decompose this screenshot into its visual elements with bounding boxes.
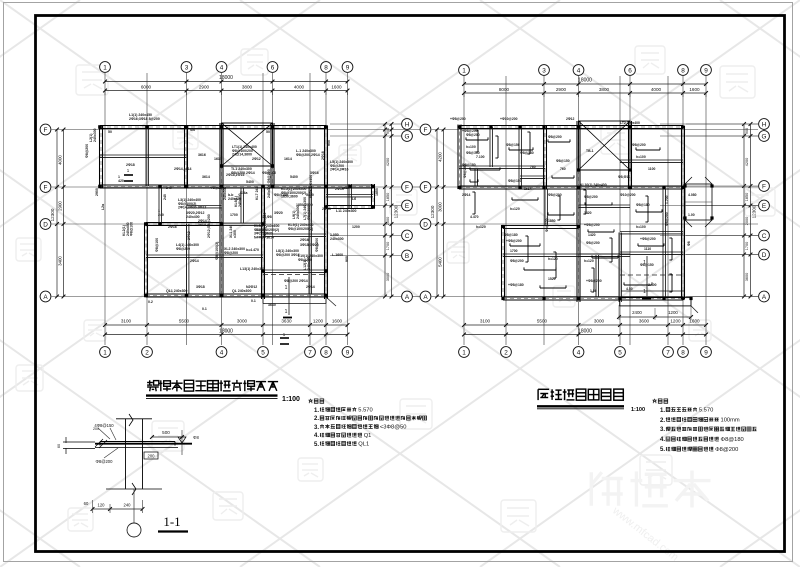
svg-text:1700: 1700 (386, 242, 390, 250)
svg-text:2.: 2. (314, 416, 319, 422)
wall (576, 121, 578, 302)
svg-text:2900: 2900 (199, 85, 210, 90)
slab rebar (638, 245, 664, 247)
svg-text:1: 1 (462, 349, 466, 356)
svg-text:1420: 1420 (588, 233, 596, 237)
right title 三层楼板配筋图 (538, 389, 549, 400)
beam (240, 188, 242, 223)
svg-text:3400: 3400 (58, 256, 63, 266)
svg-text:Φ8@200: Φ8@200 (584, 195, 598, 199)
beam (618, 233, 620, 303)
svg-text:D: D (762, 252, 767, 259)
svg-text:h=100: h=100 (466, 145, 476, 149)
svg-text:240x300 Φ8@200: 240x300 Φ8@200 (267, 169, 271, 198)
axis bubble 7 (305, 347, 316, 358)
column (618, 297, 621, 300)
svg-text:2Φ14: 2Φ14 (322, 207, 331, 211)
slab rebar (512, 199, 538, 201)
column (220, 125, 224, 129)
svg-text:0.1: 0.1 (251, 299, 256, 303)
axis bubble F (420, 124, 431, 135)
right plan stair box (579, 121, 631, 170)
svg-text:G: G (405, 133, 410, 140)
svg-text:240: 240 (124, 503, 132, 508)
watermark big logo (591, 472, 623, 506)
slab rebar (555, 252, 557, 278)
left notes (309, 399, 313, 403)
svg-text:240x300: 240x300 (330, 237, 344, 241)
svg-text:3630: 3630 (281, 319, 292, 324)
svg-text:1: 1 (103, 349, 107, 356)
slab rebar (636, 149, 660, 151)
svg-text:Φ8@100/200(2): Φ8@100/200(2) (288, 227, 313, 231)
beam (595, 255, 597, 297)
axis bubble F (420, 182, 431, 193)
slab rebar (588, 231, 614, 233)
svg-text:LT2 240x400: LT2 240x400 (620, 121, 640, 125)
column (185, 185, 189, 189)
right plan grid verticals (464, 76, 706, 345)
column (628, 186, 631, 189)
axis bubble 3 (539, 65, 550, 76)
svg-text:3630: 3630 (268, 303, 276, 307)
column (710, 184, 713, 187)
svg-text:1110: 1110 (644, 247, 651, 251)
svg-text:E: E (405, 203, 409, 210)
svg-text:F: F (44, 127, 48, 134)
svg-text:Q1: Q1 (364, 433, 372, 439)
beam (489, 127, 491, 167)
svg-text:4: 4 (577, 349, 581, 356)
axis bubble H (759, 119, 770, 130)
svg-text:3Φ20: 3Φ20 (274, 211, 283, 215)
svg-text:3800: 3800 (599, 87, 610, 92)
svg-text:4.: 4. (660, 437, 665, 443)
svg-text:+Φ8@200: +Φ8@200 (640, 237, 656, 241)
svg-text:+Φ8@200: +Φ8@200 (586, 279, 602, 283)
axis bubble A (759, 291, 770, 302)
svg-text:2: 2 (504, 349, 508, 356)
svg-text:240x300: 240x300 (307, 256, 311, 270)
axis bubble 8 (321, 62, 332, 73)
svg-text:3614: 3614 (198, 223, 206, 227)
svg-text:5.: 5. (660, 447, 665, 453)
svg-text:1200: 1200 (352, 225, 360, 229)
column (542, 297, 545, 300)
svg-text:Φ8@200 3Φ16: Φ8@200 3Φ16 (276, 253, 300, 257)
svg-text:2Φ14: 2Φ14 (462, 193, 471, 197)
svg-text:5: 5 (261, 349, 265, 356)
svg-text:1.00: 1.00 (688, 213, 695, 217)
svg-text:H: H (762, 121, 767, 128)
svg-text:2400: 2400 (632, 310, 642, 315)
column (518, 186, 521, 189)
wall (146, 222, 222, 224)
svg-text:0.1: 0.1 (202, 307, 207, 311)
column (577, 186, 580, 189)
svg-text:Φ8@200: Φ8@200 (586, 241, 600, 245)
axis bubble D (420, 219, 431, 230)
beam (187, 205, 222, 207)
beam (620, 231, 683, 233)
svg-text:L11 240x300: L11 240x300 (336, 209, 356, 213)
column (681, 125, 684, 128)
beam (100, 154, 187, 156)
svg-text:100mm: 100mm (721, 418, 740, 424)
svg-text:60: 60 (84, 501, 89, 506)
svg-text:2Φ12,Φ8@200: 2Φ12,Φ8@200 (207, 214, 211, 238)
slab rebar (477, 130, 479, 152)
axis bubble 5 (258, 347, 269, 358)
svg-text:2.400: 2.400 (648, 283, 657, 287)
svg-text:3600: 3600 (745, 273, 749, 281)
column (501, 297, 504, 300)
svg-text:4200: 4200 (745, 158, 749, 166)
beam (186, 224, 188, 294)
slab rebar (559, 196, 561, 220)
beam (326, 194, 373, 196)
svg-text:Φ10@200: Φ10@200 (620, 193, 636, 197)
svg-text:12300: 12300 (394, 205, 399, 218)
column (628, 168, 631, 171)
svg-text:1.050: 1.050 (256, 228, 265, 232)
axis bubble D (40, 219, 51, 230)
svg-text:Φ8@200: Φ8@200 (548, 135, 562, 139)
svg-text:240x400: 240x400 (228, 197, 242, 201)
svg-text:1850;2000: 1850;2000 (296, 203, 313, 207)
column (710, 216, 713, 219)
svg-text:3614: 3614 (202, 175, 210, 179)
column (144, 222, 148, 226)
svg-text:C: C (762, 233, 767, 240)
svg-text:2Φ16;3Φ18 8@200: 2Φ16;3Φ18 8@200 (129, 117, 160, 121)
svg-text:2Φ14;3Φ20 2Φ12: 2Φ14;3Φ20 2Φ12 (178, 206, 206, 210)
right plan balcony strip (620, 298, 691, 306)
svg-text:Φ8: Φ8 (687, 241, 691, 246)
svg-text:H: H (405, 121, 410, 128)
beam (263, 269, 326, 271)
svg-text:3000: 3000 (386, 273, 390, 281)
svg-text:200: 200 (148, 453, 156, 458)
wall (543, 126, 545, 189)
svg-text:1850: 1850 (386, 193, 390, 201)
wall (628, 121, 630, 189)
svg-text:5.570: 5.570 (699, 408, 713, 414)
svg-text:4.080: 4.080 (688, 193, 697, 197)
axis bubble 1 (100, 62, 111, 73)
svg-text:Φ8@150: Φ8@150 (640, 263, 654, 267)
column (371, 205, 375, 209)
column (577, 168, 580, 171)
svg-text:L13(1) 240x300: L13(1) 240x300 (240, 267, 265, 271)
svg-text:F: F (424, 127, 428, 134)
svg-text:1420: 1420 (584, 211, 592, 215)
svg-text:1850: 1850 (548, 219, 556, 223)
svg-text:4.470: 4.470 (470, 215, 479, 219)
right plan bottom dimension lines (464, 324, 706, 326)
svg-text:18000: 18000 (219, 329, 233, 335)
beam (579, 204, 631, 206)
svg-text:+Φ8@200: +Φ8@200 (450, 117, 466, 121)
axis bubble 8 (678, 65, 689, 76)
column (144, 294, 148, 298)
right plan top dimension lines (464, 83, 706, 85)
svg-text:3: 3 (542, 67, 546, 74)
svg-text:500: 500 (162, 430, 170, 435)
svg-text:1: 1 (103, 64, 107, 71)
column (261, 222, 265, 226)
beam (222, 222, 264, 224)
column (158, 185, 162, 189)
slab rebar (593, 268, 595, 292)
column (271, 164, 275, 168)
wall (459, 125, 683, 127)
beam (579, 253, 631, 255)
svg-text:3000: 3000 (438, 202, 443, 212)
svg-text:18000: 18000 (219, 75, 233, 81)
svg-text:240: 240 (163, 194, 167, 200)
slab rebar (552, 177, 574, 179)
wall (501, 225, 503, 297)
slab rebar (592, 257, 618, 259)
svg-text:7: 7 (666, 349, 670, 356)
svg-text:2Φ12: 2Φ12 (187, 231, 191, 240)
svg-text:Φ8,Φ10: Φ8,Φ10 (618, 175, 630, 179)
axis bubble 4 (216, 347, 227, 358)
svg-text:Φ8@130: Φ8@130 (466, 151, 480, 155)
svg-text:240x300: 240x300 (93, 128, 97, 142)
beam (146, 254, 222, 256)
section detail slab (95, 443, 192, 445)
svg-text:1100: 1100 (648, 167, 655, 171)
svg-text:Φ8@200: Φ8@200 (715, 447, 738, 453)
left plan top dimension lines (105, 81, 348, 83)
svg-text:+Φ8@200: +Φ8@200 (506, 239, 522, 243)
column (220, 294, 224, 298)
svg-text:4.50: 4.50 (626, 287, 633, 291)
svg-text:5400: 5400 (306, 193, 314, 197)
axis bubble G (759, 131, 770, 142)
svg-text:24@14,3600: 24@14,3600 (232, 153, 252, 157)
column (324, 269, 328, 273)
svg-text:x300: x300 (233, 230, 237, 238)
svg-text:Φ8@180: Φ8@180 (636, 203, 650, 207)
axis bubble E (402, 200, 413, 211)
column (662, 186, 665, 189)
column (98, 185, 102, 189)
svg-text:A: A (43, 294, 48, 301)
column (261, 185, 265, 189)
svg-text:h=4.470: h=4.470 (246, 248, 259, 252)
svg-text:3800: 3800 (242, 85, 253, 90)
left plan stair box (222, 123, 273, 166)
axis bubble A (420, 291, 431, 302)
svg-text:2: 2 (145, 349, 149, 356)
right notes (653, 399, 657, 403)
wall (219, 123, 221, 297)
svg-text:900: 900 (745, 128, 749, 134)
column (518, 125, 521, 128)
slab rebar (527, 236, 529, 262)
svg-text:TB-1: TB-1 (586, 149, 594, 153)
svg-text:1.: 1. (314, 408, 319, 414)
svg-text:1614: 1614 (214, 157, 222, 161)
left plan grid horizontals (52, 124, 421, 297)
svg-text:1610: 1610 (342, 186, 350, 190)
svg-text:Φ8@200: Φ8@200 (176, 247, 190, 251)
column (542, 125, 545, 128)
beam (459, 165, 545, 167)
right plan bay window (685, 184, 712, 220)
svg-text:F: F (424, 184, 428, 191)
svg-text:1-1: 1-1 (163, 514, 180, 529)
svg-text:760: 760 (530, 165, 536, 169)
svg-text:18000: 18000 (578, 329, 592, 335)
slab rebar (470, 169, 500, 171)
column (577, 297, 580, 300)
svg-text:A: A (405, 294, 410, 301)
left plan left dimension line (56, 130, 58, 297)
svg-text:F: F (44, 184, 48, 191)
slab rebar (474, 192, 476, 214)
column (220, 185, 224, 189)
svg-text:Φ8@200: Φ8@200 (307, 206, 311, 220)
svg-text:4: 4 (577, 67, 581, 74)
svg-text:F: F (762, 183, 766, 190)
svg-text:3Φ18: 3Φ18 (196, 285, 205, 289)
slab rebar (548, 141, 570, 143)
section detail bottom dims (93, 508, 143, 510)
beam (503, 253, 620, 255)
column (577, 225, 580, 228)
svg-text:G: G (762, 133, 767, 140)
axis bubble A (40, 291, 51, 302)
right plan right dimension line (743, 124, 745, 297)
left plan bottom dimension lines (105, 324, 348, 326)
slab rebar (524, 269, 556, 271)
svg-text:3Φ18;3Φ20: 3Φ18;3Φ20 (300, 243, 319, 247)
svg-text:Φ8@200: Φ8@200 (548, 193, 562, 197)
svg-text:6: 6 (271, 64, 275, 71)
svg-text:50: 50 (266, 130, 270, 134)
svg-text:QL1: QL1 (358, 442, 369, 448)
svg-text:1700: 1700 (745, 242, 749, 250)
column (271, 185, 275, 189)
svg-text:6: 6 (628, 67, 632, 74)
column (501, 225, 504, 228)
axis bubble F (40, 124, 51, 135)
svg-text:2900: 2900 (58, 201, 63, 211)
wall (326, 205, 373, 207)
slab rebar (671, 238, 673, 260)
svg-text:Φ8@200: Φ8@200 (665, 212, 669, 226)
svg-text:4.: 4. (314, 433, 319, 439)
column (271, 125, 275, 129)
svg-text:240: 240 (166, 186, 172, 190)
svg-text:N2Φ12: N2Φ12 (246, 285, 257, 289)
svg-text:KL7 240: KL7 240 (255, 187, 259, 200)
svg-text:8: 8 (324, 64, 328, 71)
svg-text:4200: 4200 (438, 152, 443, 162)
svg-text:Φ8@200: Φ8@200 (96, 459, 114, 464)
slab rebar (585, 190, 587, 214)
wall (184, 126, 186, 188)
column (689, 297, 692, 300)
svg-text:Φ8: Φ8 (193, 435, 199, 440)
axis bubble 8 (321, 347, 332, 358)
svg-text:h=100: h=100 (636, 155, 646, 159)
svg-text:1850: 1850 (375, 188, 379, 196)
left plan grid verticals (105, 73, 348, 345)
svg-text:420: 420 (118, 179, 124, 183)
svg-text:Φ8@100: Φ8@100 (130, 222, 134, 236)
svg-text:Φ8@180: Φ8@180 (504, 233, 518, 237)
svg-text:0.2: 0.2 (148, 300, 153, 304)
svg-text:1.700: 1.700 (665, 195, 669, 204)
svg-text:Φ8@180: Φ8@180 (721, 437, 744, 443)
svg-text:1700: 1700 (510, 249, 518, 253)
svg-text:1: 1 (285, 285, 288, 291)
column (324, 125, 328, 129)
axis bubble 1 (459, 347, 470, 358)
left plan right dimension line (384, 124, 386, 297)
svg-text:L2a: L2a (101, 204, 105, 210)
svg-text:1:100: 1:100 (282, 396, 300, 403)
svg-text:2Φ14,3Φ16: 2Φ14,3Φ16 (330, 168, 348, 172)
svg-text:Φ8@100: Φ8@100 (155, 238, 159, 252)
svg-text:2000: 2000 (386, 217, 390, 225)
axis bubble G (402, 131, 413, 142)
slab rebar (611, 238, 613, 262)
axis bubble 1 (459, 65, 470, 76)
axis bubble 4 (573, 65, 584, 76)
wall (503, 296, 683, 298)
svg-text:Φ8@180: Φ8@180 (462, 163, 476, 167)
svg-text:F: F (405, 184, 409, 191)
svg-text:2000: 2000 (745, 217, 749, 225)
slab rebar (585, 204, 612, 206)
svg-text:50: 50 (108, 130, 112, 134)
svg-text:1200: 1200 (668, 310, 678, 315)
right plan grid horizontals (432, 124, 759, 297)
svg-text:2Φ16: 2Φ16 (300, 238, 309, 242)
svg-text:L-1600: L-1600 (332, 253, 343, 257)
column (371, 185, 375, 189)
svg-text:2Φ16: 2Φ16 (168, 225, 177, 229)
beam (158, 188, 160, 224)
svg-text:2Φ14: 2Φ14 (306, 285, 315, 289)
axis bubble E (759, 200, 770, 211)
section detail axis circle (133, 489, 135, 523)
svg-text:+Φ10@200: +Φ10@200 (500, 117, 518, 121)
wall (270, 123, 272, 188)
axis bubble 9 (701, 347, 712, 358)
svg-text:3600: 3600 (639, 319, 650, 324)
slab rebar (636, 211, 662, 213)
right plan left dimension line (436, 130, 438, 297)
svg-text:120: 120 (98, 503, 106, 508)
svg-text:5400: 5400 (438, 257, 443, 267)
svg-text:900: 900 (327, 140, 331, 146)
column (145, 125, 149, 129)
svg-text:1: 1 (643, 289, 646, 295)
column (220, 164, 224, 168)
svg-text:12300: 12300 (50, 208, 55, 221)
svg-text:2.: 2. (660, 418, 665, 424)
column (457, 125, 460, 128)
column (577, 125, 580, 128)
svg-text:7.100: 7.100 (476, 155, 485, 159)
